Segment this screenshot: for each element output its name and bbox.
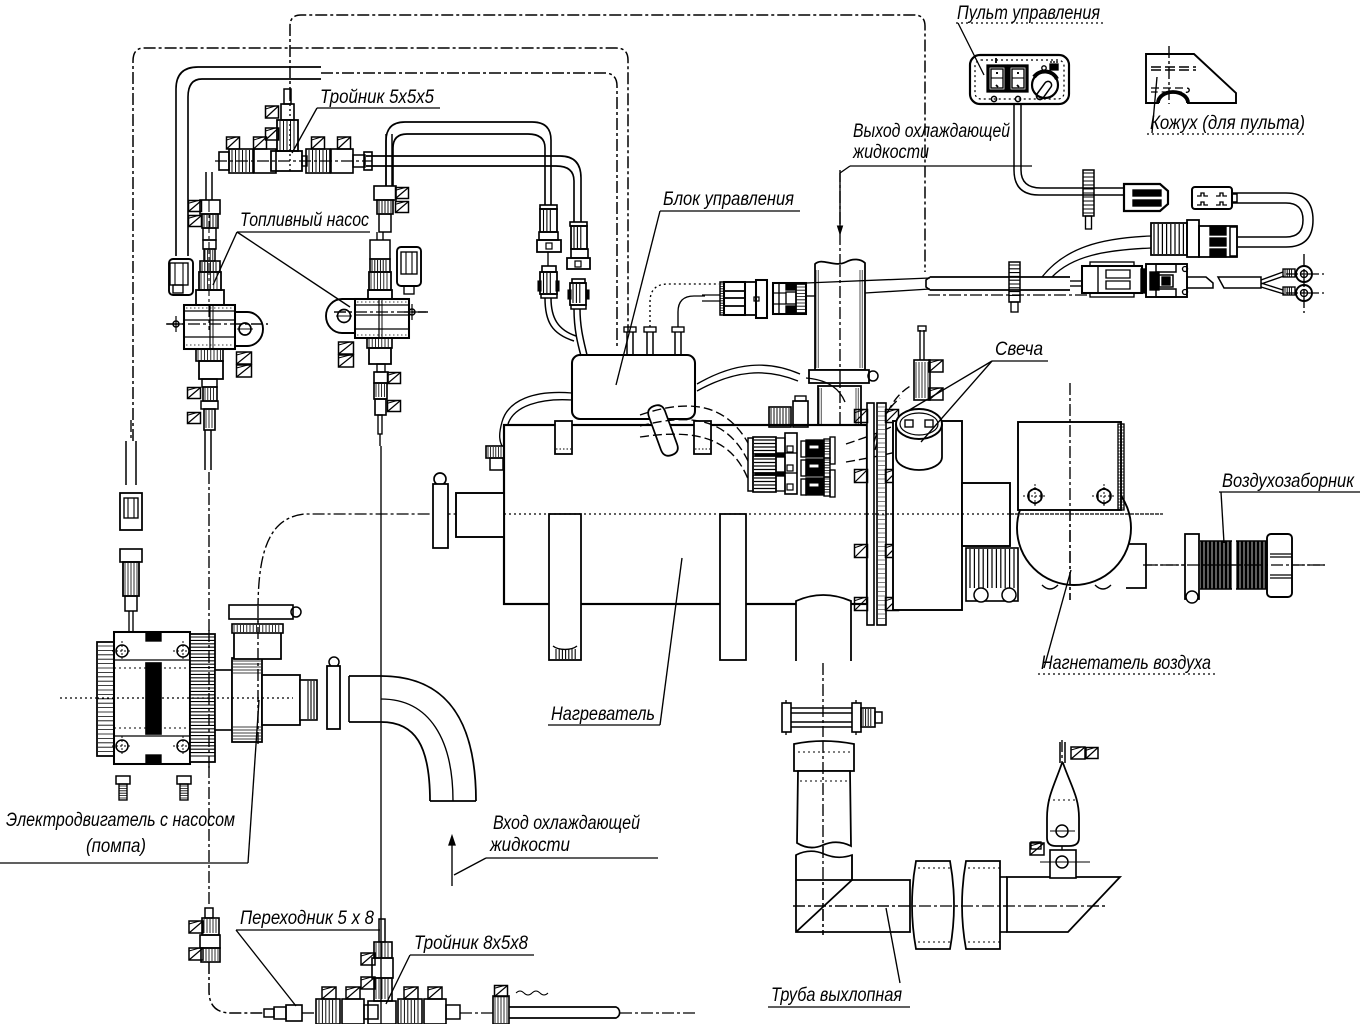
wire left of control unit [500,392,572,446]
svg-text:Вход охлаждающей: Вход охлаждающей [493,813,640,834]
blower centerline redraw [1069,425,1071,600]
svg-text:(помпа): (помпа) [86,836,146,857]
glow plug stem [914,360,930,400]
air intake flange [1185,534,1199,599]
panel knob [1032,72,1058,98]
pump top cylinder [234,632,281,659]
wire harness routing line top (fuel tee to cable) [290,15,925,272]
fuel pipe from tee to second injector connector [366,156,581,222]
fuel pipe left loop [176,67,321,256]
heater top small connector blocks [769,407,791,427]
right pump right pivot [409,309,415,315]
chain 2 outlet tube [574,309,581,356]
wire routing line upper-left to control unit [133,48,628,441]
right pump lower neck [367,338,392,348]
svg-text:жидкости: жидкости [489,835,570,856]
svg-text:Переходник 5 х 8: Переходник 5 х 8 [240,908,374,929]
left pump mounting plate [235,312,263,346]
exhaust pipe upper [797,771,851,848]
air intake centerline redraw [1145,564,1325,566]
wire to ring terminals [1218,277,1261,288]
exhaust clamp [782,703,791,732]
left fuel pump centerline [167,323,268,325]
wire to connector pair [1042,236,1151,277]
cover for panel (kozhukh) [1146,54,1236,103]
pump top tube [229,605,293,619]
exhaust elbow [796,880,910,932]
coolant outlet pipe [815,259,865,370]
svg-text:Выход охлаждающей: Выход охлаждающей [853,121,1010,142]
air intake end cap [1267,534,1292,597]
motor body details [114,659,190,661]
svg-text:Топливный насос: Топливный насос [240,210,369,231]
tee 5x5x5 centerline [215,160,372,162]
heater left shaft stub [456,493,504,537]
tee 8x5x8 rail [316,999,340,1024]
tee 5x5x5 rail [219,152,229,170]
fuel hose right [493,996,509,1024]
bottom routing corner to tee 8x5x8 [209,962,263,1013]
motor connector lower [120,549,142,562]
right pump centerline redraw [334,311,428,313]
blower plate bolts [1028,489,1042,503]
left pump inlet tube [205,172,207,200]
in-line connector wires [702,294,720,296]
wire right of control unit [697,365,800,384]
svg-text:Свеча: Свеча [995,339,1043,360]
connector group B [801,441,806,457]
blower outlet pipe [1126,544,1146,588]
exhaust sensor centerline [1061,740,1063,884]
pump head [215,670,232,730]
blower mounting plate [1018,422,1121,510]
exhaust centerlines redraw [793,905,1108,907]
blower scroll circle [1017,471,1131,585]
air intake corrugation 2 [1238,541,1266,589]
right pump outlet fitting [374,372,388,383]
exhaust pipe collar [794,741,854,771]
heater left clamp [434,473,446,485]
combustion air pipe [962,483,1010,546]
tee 5x5x5 clamp bolts [227,137,240,149]
heater support leg left [549,514,581,660]
control panel body [970,55,1069,104]
left pump solenoid [200,261,220,272]
tiny marking text [516,991,548,995]
injector connector chain 1 link [547,252,549,266]
panel indicator dots [991,96,996,101]
fuel line left pump down (centerline) [208,472,210,906]
motor left wire chain tube [125,441,127,485]
wires from tubes to connector [650,284,719,327]
air intake centerline [1140,564,1325,566]
panel switch 2 [1009,66,1027,91]
control unit box [572,355,695,419]
right pump top tube [385,134,387,186]
control unit mounting tab right [694,421,711,454]
harness clamp ribbed [1083,170,1094,216]
wire from panel [1014,104,1124,195]
right pump connector plug [397,247,421,286]
exhaust vertical centerline [822,600,824,737]
control unit tubes on top [624,327,636,332]
right pump outlet tube [378,415,382,434]
svg-text:Тройник 8х5х8: Тройник 8х5х8 [414,933,528,954]
left pump outlet fitting [202,379,217,387]
motor connector upper [120,493,142,530]
flange bolts [855,410,868,423]
wire stub right [1187,277,1213,288]
bottom fitting on fuel line [205,908,213,918]
exhaust tail pipe [1000,876,1007,878]
ring terminal lower [1283,287,1295,295]
connector 4-port [1192,187,1232,209]
panel switch 1 [988,66,1006,91]
left pump centerline redraw [167,323,268,325]
wires on heater top [806,378,845,402]
wires control unit to connector groups [640,406,748,443]
flat cable [926,277,1070,290]
svg-text:жидкости: жидкости [852,142,929,163]
glow plug body [896,424,942,470]
blower vertical centerline [1069,383,1071,600]
svg-text:Труба выхлопная: Труба выхлопная [771,985,902,1006]
right pump lower bolts [339,342,354,354]
tee 8x5x8 vertical branch [379,919,385,942]
coolant pipe lower [818,386,861,426]
injector connector chain 2 lower [572,279,585,283]
electric motor body [97,642,114,756]
svg-text:Пульт управления: Пульт управления [957,3,1100,24]
fuel line right pump down to bottom tee [380,446,382,1024]
svg-text:Нагнетатель воздуха: Нагнетатель воздуха [1041,653,1211,674]
cable centerline right [928,294,1090,296]
routing line from pipe to control unit [321,73,617,348]
connector A lower row [1070,280,1082,282]
heater centerline [257,610,259,700]
exhaust tip [1007,877,1120,932]
in-line connector big [720,282,724,315]
wire loop right [1232,193,1313,247]
sensor lower block [1050,850,1076,878]
right fuel pump centerline [334,311,428,313]
motor ribbed ring [190,634,215,762]
heater flange [867,403,874,625]
tee 5x5x5 vertical body [277,120,298,151]
connector 6-slot [1124,184,1168,211]
tee 8x5x8 clamp bolts [322,987,336,999]
motor mount bolts [116,776,130,784]
coolant pipe centerline redraw [839,265,841,438]
combustion air housing [893,421,962,610]
injector connector chain 1 lower [542,266,556,272]
in-line connector mate [773,283,806,314]
glow plug cap [896,409,942,439]
right pump mounting plate [326,299,355,333]
svg-text:Блок управления: Блок управления [663,189,794,210]
right pump body [355,299,409,338]
connector group A [748,438,753,491]
blower bottom seam [1042,585,1111,589]
svg-text:Нагреватель: Нагреватель [551,704,655,725]
exhaust flex section 2 [962,861,1000,949]
left pump outlet tube [204,430,206,470]
injector connector chain 2 upper [570,222,587,226]
injector connector chain 1 upper [540,205,557,209]
left pump drain bolts [237,352,252,364]
air intake corrugation 1 [1202,541,1230,589]
exhaust flex section 1 [912,861,954,949]
left pump lower neck [196,349,223,361]
connector pair mid-right big [1151,223,1187,255]
glow plug rod [919,330,921,360]
heater support leg right [720,514,746,660]
sensor left bolt [1030,843,1044,855]
left pump connector plug [169,259,193,295]
left pump top fitting [200,200,220,214]
heater exhaust stub [796,595,851,661]
left pump upper neck [203,228,216,240]
coolant pipe centerline [839,170,841,440]
left pump body [184,305,235,349]
svg-text:Кожух (для пульта): Кожух (для пульта) [1150,113,1305,134]
motor centerline redraw [97,697,293,699]
heater left connector [486,446,506,458]
exhaust horizontal centerline [793,905,1108,907]
cover centerline [1168,46,1170,104]
connector B lower row [1141,269,1146,293]
blower ribbed joint [966,548,1018,601]
fuel pipe from right pump to injector connector [386,122,551,205]
right pump top fitting [374,186,396,200]
svg-text:Воздухозаборник: Воздухозаборник [1222,471,1355,492]
ring terminal upper [1283,269,1295,277]
diagonal inlet tube on heater [648,405,678,456]
electric motor centerline [60,697,293,699]
svg-text:Тройник 5х5х5: Тройник 5х5х5 [320,87,434,108]
ring terminal centerlines [1303,254,1305,313]
pump clamp piece [329,657,339,667]
pump outlet cone [262,675,300,725]
cable clamp ribbed [1009,262,1020,302]
sensor stem [1059,742,1061,763]
sensor bolts top [1071,747,1085,759]
coolant inlet elbow [349,676,476,801]
coolant pipe flange [809,370,869,383]
control unit mounting tab left [555,421,572,454]
adapter 5x8 [264,1009,274,1017]
heater body [504,425,867,604]
chain 1 outlet tube [545,298,574,341]
left pump left pivot [173,321,179,327]
svg-text:Электродвигатель с насосом: Электродвигатель с насосом [6,810,235,831]
exhaust pipe lower [796,851,852,880]
sensor teardrop bracket [1047,763,1079,846]
tee vertical bolts [266,106,279,118]
heater centerline redraw [504,513,867,515]
right pump upper neck [370,240,390,259]
